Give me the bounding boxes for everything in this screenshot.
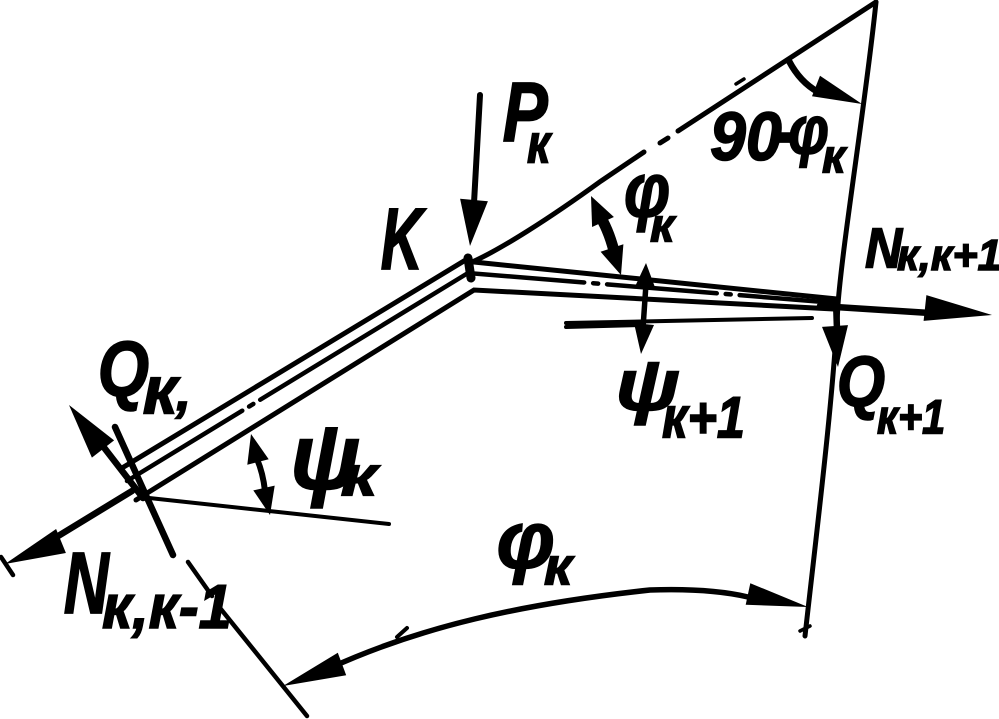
svg-text:90: 90 [710,99,782,175]
angle arc phi_k (bottom, double headed) [330,590,748,668]
svg-text:к,к+1: к,к+1 [897,232,999,280]
svg-text:к+1: к+1 [877,392,945,444]
wire inclined axis line through K [470,2,876,263]
force arrow P_k [474,95,480,203]
section cut line at left end of bar [115,427,173,555]
small hook on arc [397,628,407,637]
angle arrow psi_k+1 (double headed) [643,284,646,328]
angle arrow phi_k (double headed) [598,213,614,251]
reference line for psi_k+1 [566,318,812,327]
svg-text:к,к-1: к,к-1 [102,572,232,641]
svg-text:K: K [381,190,426,288]
joint K blob [468,258,471,278]
force arrow Q_k+1 [836,300,837,330]
radial line (extension to arc) [188,562,307,716]
svg-text:к: к [143,352,181,428]
reference line for psi_k [140,497,389,524]
force arrow Q_k [92,432,143,498]
bar bottom edge [136,290,834,500]
tick at N_k,k-1 tip [1,557,13,575]
wire vertical line through joint k+1 [805,2,876,636]
tick on vertical line below arc [800,626,810,631]
stray dash above 90 [736,79,744,84]
force arrow N_k,k-1 [50,491,132,541]
svg-text:к: к [822,130,848,183]
bar top edge [122,261,837,468]
force arrow N_k,k+1 [820,306,930,313]
svg-text:к: к [527,113,552,175]
svg-text:к+1: к+1 [662,385,745,450]
svg-text:к: к [341,444,381,507]
angle arc 90-phi_k [789,61,818,92]
bar dash-dot centerline [127,273,836,481]
angle arrow psi_k (double headed) [257,459,265,491]
svg-text:к: к [650,200,676,252]
svg-text:,: , [175,360,191,422]
svg-text:Q: Q [98,327,149,413]
svg-text:к: к [544,537,575,596]
